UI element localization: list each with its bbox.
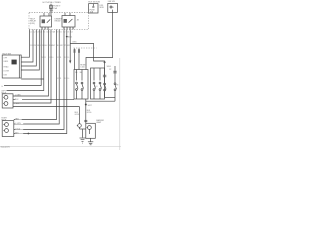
ground G201 under tail lamp (88, 138, 93, 145)
fuse F1 (50, 4, 53, 16)
dimmer low contact chain (104, 83, 106, 98)
svg-text:(DRL): (DRL) (30, 23, 35, 25)
headlamp switch SW1 (2, 55, 21, 78)
svg-text:WHT: WHT (51, 45, 55, 47)
feed wire from ignition switch (86, 12, 113, 69)
park lamp bulb E5 (77, 107, 81, 129)
connector C202 bars (103, 67, 106, 83)
wire to headlamp switch pin B1 (21, 30, 29, 58)
right headlamp high bulb E4 (3, 129, 8, 133)
svg-text:85: 85 (72, 28, 74, 30)
svg-text:10: 10 (67, 57, 69, 59)
wire circuit number row 2 (42, 57, 70, 59)
connector pin D5 (74, 49, 76, 70)
svg-text:52: 52 (57, 78, 59, 80)
svg-text:11: 11 (44, 57, 46, 59)
junction block dashed boundary (29, 13, 89, 30)
svg-text:L GRN: L GRN (15, 95, 21, 97)
wire to right headlamp pin D (14, 30, 67, 134)
relay K1 (40, 13, 52, 27)
svg-text:PARK: PARK (4, 60, 10, 63)
splice S301 (66, 36, 72, 39)
wire to headlamp switch pin B6 (21, 78, 44, 80)
wire to left park lamp (4, 30, 41, 86)
svg-text:L GRN: L GRN (15, 123, 21, 125)
relay K1 pin stubs (42, 27, 48, 30)
svg-text:MOD: MOD (100, 7, 105, 9)
left headlamp housing (2, 94, 13, 108)
svg-text:C2: C2 (33, 31, 35, 33)
wire to headlamp switch pin B2 (21, 30, 33, 63)
svg-text:C7: C7 (50, 31, 52, 33)
module B switch contacts (93, 82, 101, 99)
wire to left headlamp low (13, 30, 49, 97)
wire to right headlamp pin C (14, 30, 64, 130)
wire to right headlamp pin A (14, 30, 57, 120)
svg-text:10: 10 (67, 78, 69, 80)
wire label right pin C (15, 128, 23, 130)
relay pin numbers under K2 (63, 28, 74, 30)
svg-text:D1: D1 (60, 31, 62, 33)
svg-text:12: 12 (64, 78, 66, 80)
wire label right pin B (15, 122, 23, 124)
splice S204 (0, 0, 1, 1)
svg-text:S417: S417 (88, 105, 92, 107)
wire to left marker lamp (7, 30, 44, 91)
multifunction switch module B (91, 68, 105, 99)
ground G111 (80, 138, 86, 143)
svg-text:D4: D4 (71, 31, 73, 33)
right headlamp low bulb E3 (3, 123, 8, 127)
left headlamp ground wire 2 long (13, 106, 80, 108)
multifunction switch dashed boundary (74, 47, 97, 49)
svg-text:HEAD: HEAD (4, 65, 10, 68)
svg-text:C3: C3 (37, 31, 39, 33)
wire to headlamp switch pin B4 (21, 30, 39, 71)
tail lamp assembly (86, 123, 96, 138)
relay K2 pin stubs (64, 27, 73, 30)
page edge artifact (119, 58, 121, 150)
left headlamp high bulb E2 (3, 102, 8, 106)
module A switch contacts (76, 82, 84, 99)
jog wire to DRL splice (70, 44, 104, 68)
wire label right pin D with connector (15, 132, 29, 135)
headlamp switch SW1 internal labels (4, 57, 10, 76)
wire label left ground (15, 99, 22, 101)
wire color label row (30, 44, 72, 47)
footer rule (0, 146, 121, 148)
ground G111 stem (82, 129, 84, 138)
svg-text:RELAY: RELAY (55, 20, 62, 23)
svg-text:L BLU: L BLU (14, 103, 20, 105)
right headlamp housing (2, 121, 14, 137)
svg-text:52: 52 (42, 57, 44, 59)
svg-text:10: 10 (51, 57, 53, 59)
svg-text:G200: G200 (87, 112, 91, 114)
svg-text:52: 52 (57, 57, 59, 59)
svg-text:C1: C1 (30, 31, 32, 33)
wire off-page arrow (69, 30, 71, 64)
svg-text:HOT IN RUN: HOT IN RUN (88, 1, 100, 3)
wire junction block C9 (13, 30, 51, 104)
svg-text:C8: C8 (52, 31, 54, 33)
svg-text:HOT AT ALL TIMES: HOT AT ALL TIMES (43, 1, 62, 4)
svg-text:11: 11 (60, 78, 62, 80)
svg-text:11: 11 (60, 57, 62, 59)
svg-text:C100: C100 (80, 66, 84, 68)
wire to right headlamp pin B (14, 30, 59, 125)
svg-text:LAMP: LAMP (96, 121, 102, 124)
left headlamp low bulb E1 (3, 95, 8, 99)
dimmer switch SW2 (113, 66, 116, 98)
svg-text:L BLU: L BLU (15, 128, 21, 130)
relay K2 (62, 13, 75, 27)
svg-text:95I05978: 95I05978 (1, 147, 11, 149)
wire label right pin A (15, 118, 22, 120)
svg-text:C2: C2 (109, 69, 111, 71)
ignition switch U2 (108, 3, 118, 12)
multifunction switch module A (74, 70, 88, 100)
svg-text:DOME: DOME (4, 70, 10, 72)
splice S206 (104, 61, 111, 68)
svg-text:30: 30 (44, 28, 46, 30)
wire circuit number row 3 (57, 78, 69, 80)
svg-text:12: 12 (64, 57, 66, 59)
wire module A to splice (85, 99, 87, 123)
svg-text:S206: S206 (107, 66, 111, 68)
wire to headlamp switch pin B3 (21, 30, 36, 67)
splice S417 (85, 104, 92, 107)
svg-text:S301: S301 (68, 37, 72, 39)
svg-text:G110: G110 (75, 114, 79, 116)
connector C417 bars (84, 120, 87, 121)
svg-text:DIM: DIM (4, 74, 8, 76)
ground jumper wire (80, 128, 86, 130)
svg-text:C5: C5 (43, 31, 45, 33)
left headlamp ground wire long (13, 99, 74, 101)
connector pin D6 (78, 49, 80, 70)
svg-text:IGN SW: IGN SW (108, 1, 115, 3)
connector pin number row (30, 31, 73, 33)
svg-text:B4: B4 (80, 72, 82, 74)
ground bus wire (86, 98, 115, 102)
fuse block B1 (89, 4, 98, 14)
relay pin numbers under K1 (41, 28, 49, 30)
